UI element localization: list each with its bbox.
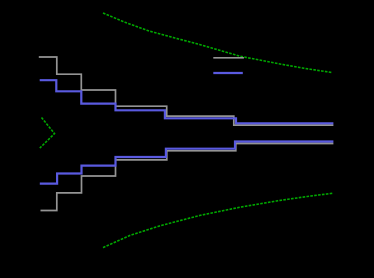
green envelope curve top (dashed) [103, 13, 332, 73]
gray upper staircase [39, 57, 334, 125]
blue upper staircase [40, 80, 334, 123]
green chevron marker (left, dashed) [40, 118, 55, 149]
gray lower staircase [41, 144, 334, 211]
legend swatch gray [213, 57, 244, 59]
blue lower staircase [40, 142, 334, 184]
legend swatch blue [213, 72, 243, 74]
green envelope curve bottom (dashed) [103, 193, 333, 247]
